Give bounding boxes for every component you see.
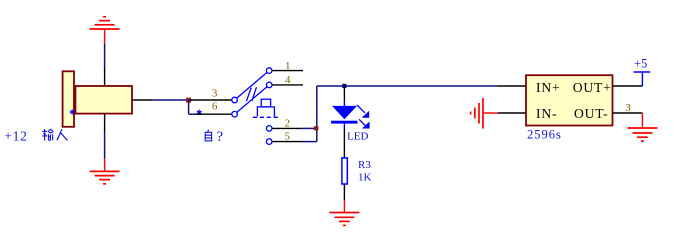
svg-text:OUT-: OUT-: [574, 106, 608, 121]
svg-text:IN+: IN+: [536, 80, 560, 95]
svg-text:1K: 1K: [358, 171, 372, 183]
svg-text:?: ?: [216, 129, 223, 145]
svg-text:LED: LED: [347, 131, 368, 143]
svg-text:5: 5: [284, 131, 290, 143]
svg-text:4: 4: [285, 74, 291, 86]
svg-text:OUT+: OUT+: [573, 80, 612, 95]
svg-text:6: 6: [212, 101, 218, 113]
svg-text:R3: R3: [358, 159, 371, 171]
svg-text:1: 1: [285, 60, 291, 72]
svg-text:3: 3: [212, 88, 218, 100]
svg-text:2596s: 2596s: [527, 128, 562, 142]
svg-text:2: 2: [284, 118, 290, 130]
svg-text:+12: +12: [4, 128, 28, 143]
svg-text:+5: +5: [634, 57, 647, 71]
svg-text:3: 3: [625, 102, 631, 114]
svg-text:IN-: IN-: [536, 106, 557, 121]
